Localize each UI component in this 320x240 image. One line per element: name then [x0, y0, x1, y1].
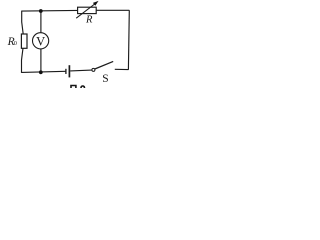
rheostat arrow — [76, 3, 96, 18]
battery cell: short plate — [65, 69, 67, 74]
node junction top — [39, 9, 43, 13]
wire bottom-right stub (switch to corner) — [115, 68, 129, 70]
caption (cut off figure label) second glyph top — [80, 85, 85, 88]
svg-text:S: S — [102, 73, 108, 85]
wire top-left segment — [22, 9, 78, 12]
wire voltmeter branch lower — [40, 49, 42, 73]
caption (cut off figure label) first glyph top — [70, 85, 77, 88]
voltmeter V — [33, 33, 49, 49]
switch S: pivot circle — [92, 68, 95, 71]
wire bottom-left segment — [22, 71, 66, 72]
resistor R0 — [21, 34, 27, 48]
svg-text:V: V — [36, 34, 45, 48]
wire right vertical — [127, 10, 130, 69]
switch S: lever — [95, 61, 113, 69]
wire voltmeter branch upper — [40, 11, 42, 33]
rheostat R (variable resistor) — [78, 7, 97, 13]
wire left vertical upper (corner to R0) — [22, 11, 24, 35]
wire battery to switch — [70, 69, 92, 72]
wire top-right segment — [96, 9, 129, 11]
battery cell: long plate — [68, 65, 70, 77]
wire left vertical lower (R0 to corner) — [22, 48, 24, 73]
svg-text:R: R — [85, 15, 93, 26]
svg-text:0: 0 — [14, 41, 17, 47]
node junction bottom — [39, 70, 43, 74]
